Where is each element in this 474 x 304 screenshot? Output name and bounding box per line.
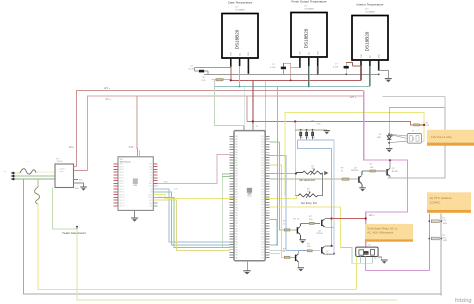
svg-text:12V +: 12V +	[350, 95, 357, 99]
svg-text:fritzing: fritzing	[455, 298, 471, 304]
svg-text:PD1: PD1	[261, 181, 264, 183]
svg-text:PD4: PD4	[261, 168, 264, 170]
ground T3	[298, 262, 300, 267]
wire SDC pink	[158, 155, 231, 184]
svg-text:GPIO4: GPIO4	[119, 175, 124, 177]
svg-text:TIP120: TIP120	[316, 233, 323, 235]
ground sensor3	[385, 79, 392, 83]
svg-text:DC-: DC-	[374, 258, 378, 260]
svg-text:IO2: IO2	[150, 175, 153, 177]
wire gray stubs to resistors	[270, 250, 285, 252]
svg-text:DS18B20: DS18B20	[304, 28, 309, 48]
wire red AVCC drop	[265, 80, 267, 136]
wire green vertical	[279, 142, 284, 230]
wire S3 VDD drop	[360, 66, 362, 80]
wire green data	[270, 141, 280, 143]
wire yellow vertical	[270, 165, 285, 257]
svg-text:DS18B20: DS18B20	[236, 9, 246, 11]
svg-text:GPIO2: GPIO2	[119, 169, 124, 171]
svg-text:PD1: PD1	[261, 223, 264, 225]
wire green bundle	[158, 197, 231, 247]
svg-text:3: 3	[314, 137, 315, 139]
svg-text:GPIO1: GPIO1	[119, 166, 124, 168]
svg-text:Mega: Mega	[247, 196, 251, 198]
svg-text:fan speed pot.: fan speed pot.	[300, 179, 316, 182]
svg-text:PD3: PD3	[261, 207, 264, 209]
svg-text:GPIO15: GPIO15	[119, 206, 125, 208]
ground LED	[386, 149, 393, 153]
transistor Q1	[359, 176, 362, 184]
node red junction	[294, 120, 296, 122]
svg-text:0.1uF: 0.1uF	[333, 66, 339, 68]
svg-text:12V +: 12V +	[369, 214, 376, 217]
wire dark red from sensor bus	[252, 80, 254, 130]
svg-text:PD4: PD4	[261, 147, 264, 149]
wire red to SSR	[332, 218, 366, 220]
wire gray fan loop	[389, 107, 445, 109]
node teal junctions	[239, 86, 241, 88]
svg-text:1k: 1k	[283, 223, 285, 225]
svg-text:IO5: IO5	[150, 180, 153, 182]
svg-text:PD0: PD0	[261, 220, 264, 222]
svg-text:PD6: PD6	[261, 173, 264, 175]
svg-text:10k: 10k	[312, 168, 315, 170]
svg-text:PD2: PD2	[261, 226, 264, 228]
wire T4 to rails	[325, 245, 332, 247]
wire blue collect	[298, 139, 334, 141]
svg-text:12V+: 12V+	[69, 146, 75, 149]
svg-text:GND: GND	[318, 50, 320, 55]
wire S2 GND drop	[317, 66, 319, 74]
svg-text:EN: EN	[150, 169, 152, 171]
capacitor C1 0.1uF	[195, 67, 231, 69]
svg-text:PD2: PD2	[261, 163, 264, 165]
wire mains L with jumper squiggle	[15, 172, 20, 174]
svg-text:PD5: PD5	[261, 170, 264, 172]
wire fan fanout	[389, 134, 407, 136]
svg-text:IO4: IO4	[150, 178, 153, 180]
svg-text:120V: 120V	[443, 240, 448, 242]
svg-text:PD6: PD6	[261, 152, 264, 154]
wire sensor ground bus	[204, 73, 379, 75]
transistor T4 TIP120	[319, 249, 321, 252]
svg-text:GPIO11: GPIO11	[119, 194, 124, 196]
svg-text:GPIO3: GPIO3	[119, 172, 124, 174]
wire mains N	[15, 175, 55, 177]
resistor R7 100	[300, 223, 302, 226]
svg-text:PD2: PD2	[261, 184, 264, 186]
wire pot1 to right	[324, 171, 328, 175]
wire 5V drop to red rail	[246, 96, 248, 122]
wire 12V+ into pin 1	[74, 166, 77, 168]
wire teal lower	[270, 220, 277, 245]
svg-text:DS18B20: DS18B20	[365, 31, 370, 51]
potentiometer set temp pot	[297, 194, 300, 196]
svg-text:PD5: PD5	[261, 255, 264, 257]
transistor Q2	[384, 171, 386, 172]
svg-text:PD5: PD5	[261, 234, 264, 236]
svg-text:Interior Temperature: Interior Temperature	[357, 2, 384, 6]
label box Solid State Relay	[365, 224, 413, 239]
svg-text:GPIO5: GPIO5	[119, 178, 124, 180]
svg-text:GND: GND	[379, 53, 381, 58]
svg-text:PD0: PD0	[261, 199, 264, 201]
svg-text:GPIO0: GPIO0	[119, 164, 124, 166]
svg-text:PD3: PD3	[261, 186, 264, 188]
svg-text:PD4: PD4	[261, 189, 264, 191]
svg-text:VIN: VIN	[150, 206, 153, 208]
svg-text:PD0: PD0	[261, 242, 264, 244]
connector J1 fan	[407, 134, 421, 144]
ground T1	[300, 235, 302, 240]
sensor U2 DS18B20 Fresh Output Temperature	[291, 13, 327, 58]
wire T2 to blue rails	[325, 218, 332, 220]
svg-text:GPIO14: GPIO14	[119, 203, 125, 205]
wire yellow IC to 340	[270, 207, 341, 247]
svg-text:CLK: CLK	[149, 192, 152, 194]
ground SSR	[381, 260, 388, 264]
wire blue vertical	[270, 155, 308, 250]
wire yellow loop	[285, 112, 424, 196]
svg-text:PD3: PD3	[261, 165, 264, 167]
wire heater case ground	[53, 188, 77, 229]
transistor T3	[296, 254, 299, 262]
U5 right pins	[265, 136, 269, 138]
svg-text:PD5: PD5	[261, 213, 264, 215]
svg-text:PD4: PD4	[261, 252, 264, 254]
wire CLR yellow long to pot	[158, 195, 298, 199]
svg-text:PD1: PD1	[261, 244, 264, 246]
wire sensor 5V bus	[231, 79, 361, 81]
svg-text:(2) PTC Heaters,: (2) PTC Heaters,	[430, 196, 453, 200]
wire 5V+ bus	[88, 96, 364, 171]
ground U2	[134, 210, 136, 217]
wire heater bottom	[440, 294, 442, 295]
svg-text:PD7: PD7	[261, 218, 264, 220]
resistor R9 100 lower	[298, 251, 300, 254]
wire 5V into pin 2	[74, 169, 88, 171]
svg-text:Heater Case Ground: Heater Case Ground	[63, 232, 87, 235]
wire heater left vertical	[428, 214, 430, 271]
wire pullup rail	[295, 129, 327, 131]
node mains input arrows	[11, 172, 15, 175]
svg-text:CS: CS	[175, 189, 179, 191]
LED D1	[388, 108, 390, 136]
IC U5 ATmega	[234, 131, 265, 261]
svg-text:10k: 10k	[307, 191, 310, 193]
svg-text:1: 1	[302, 137, 303, 139]
svg-text:PD1: PD1	[261, 202, 264, 204]
svg-text:GPIO10: GPIO10	[119, 192, 125, 194]
wire yellow bundle	[158, 200, 231, 250]
svg-text:0.1uF: 0.1uF	[189, 68, 195, 70]
svg-text:conv: conv	[60, 171, 64, 173]
svg-text:RST: RST	[149, 200, 152, 202]
svg-text:1k: 1k	[297, 219, 299, 221]
label box PTC heaters	[427, 192, 471, 210]
svg-text:MOSI: MOSI	[148, 197, 152, 199]
svg-text:WiFi Module: WiFi Module	[120, 162, 132, 164]
svg-text:PD7: PD7	[261, 197, 264, 199]
resistor R5 100	[361, 171, 363, 175]
svg-text:PD1: PD1	[261, 160, 264, 162]
svg-text:5V +: 5V +	[79, 180, 84, 182]
wire pot loop	[318, 173, 323, 196]
svg-text:5V +: 5V +	[106, 97, 112, 101]
svg-text:PD6: PD6	[261, 194, 264, 196]
power module U4 12V-5V	[55, 164, 74, 188]
wire teal	[158, 192, 231, 245]
wire S3 DQ drop	[369, 66, 371, 87]
svg-text:LED: LED	[377, 137, 381, 139]
transistor T1	[297, 226, 300, 234]
svg-text:PD3: PD3	[261, 144, 264, 146]
svg-text:PD7: PD7	[261, 176, 264, 178]
svg-text:PD7: PD7	[261, 155, 264, 157]
wire DQ drop	[239, 66, 241, 87]
wire mains E	[15, 178, 55, 180]
wire one-wire data bus (teal)	[214, 86, 370, 88]
svg-text:Case Temperature: Case Temperature	[228, 0, 253, 4]
wire to Q1 base	[270, 178, 342, 180]
transistor T2 TIP120	[319, 222, 321, 225]
wire heater right vertical	[440, 214, 442, 296]
svg-text:BC337: BC337	[392, 171, 399, 173]
svg-text:4014: 4014	[364, 253, 368, 255]
svg-text:2: 2	[308, 137, 309, 139]
svg-text:GND: GND	[75, 188, 80, 190]
U5 left pins	[230, 136, 234, 138]
resistor R3 220	[414, 124, 420, 126]
svg-text:PD6: PD6	[261, 257, 264, 259]
wire teal faint drop	[244, 87, 246, 126]
svg-text:DS18B20: DS18B20	[366, 11, 376, 13]
svg-text:PD5: PD5	[261, 191, 264, 193]
svg-text:120V: 120V	[443, 223, 448, 225]
svg-text:3.3V: 3.3V	[129, 147, 134, 149]
wire faint 5V to fan	[383, 96, 445, 98]
wire red drop pots	[295, 122, 298, 196]
wire teal under IC to bundle	[270, 244, 278, 246]
svg-text:PD6: PD6	[261, 215, 264, 217]
wire gray to bottom loop	[23, 179, 441, 294]
svg-text:PD3: PD3	[261, 249, 264, 251]
wire green to pot1	[270, 173, 296, 175]
wire teal to IC top	[214, 87, 244, 131]
svg-text:PD3: PD3	[261, 228, 264, 230]
svg-text:1k: 1k	[283, 251, 285, 253]
wire 12V+ bus	[76, 91, 363, 167]
svg-text:PD7: PD7	[261, 239, 264, 241]
wire yellow bottom long	[38, 204, 357, 289]
svg-text:PD0: PD0	[261, 157, 264, 159]
svg-text:GPIO7: GPIO7	[119, 183, 124, 185]
wire CS blue	[158, 189, 231, 242]
svg-text:Set Temp. Pot: Set Temp. Pot	[301, 202, 317, 205]
heater R10 PTC	[428, 220, 430, 222]
wire red drop to rail	[294, 122, 296, 130]
wire squiggle down	[37, 179, 39, 187]
potentiometer fan speed pot	[296, 172, 303, 174]
label box 12V Fan 4 wire	[427, 130, 474, 143]
wire yellow from SSR	[356, 257, 358, 290]
svg-text:GPIO6: GPIO6	[119, 180, 124, 182]
U2 right pins	[153, 163, 157, 165]
svg-text:PD6: PD6	[261, 236, 264, 238]
ground power module	[80, 187, 87, 191]
wire S2 VDD tap	[290, 68, 292, 81]
svg-text:12V Fan 4 wire: 12V Fan 4 wire	[431, 135, 452, 139]
wire Q2 collector to 12V	[389, 160, 391, 168]
wire magenta SSR down right	[366, 257, 430, 271]
relay U6 SSR	[356, 247, 378, 256]
wire red feed across fan area	[247, 121, 414, 125]
svg-text:120VAC: 120VAC	[430, 200, 442, 204]
svg-text:CS: CS	[150, 189, 152, 191]
svg-text:PD2: PD2	[261, 141, 264, 143]
svg-text:GPIO12: GPIO12	[119, 197, 125, 199]
svg-text:12V +: 12V +	[104, 86, 111, 90]
wire S2 DQ drop	[308, 66, 310, 87]
svg-text:PD2: PD2	[261, 205, 264, 207]
svg-text:PD5: PD5	[261, 149, 264, 151]
wire S3 GND to ground	[379, 71, 389, 79]
svg-text:PD4: PD4	[261, 231, 264, 233]
svg-text:DS18B20: DS18B20	[235, 29, 240, 49]
svg-text:PD0: PD0	[261, 178, 264, 180]
wire GND drop	[247, 73, 249, 76]
wire teal SSR loop	[341, 247, 373, 263]
svg-text:GPIO13: GPIO13	[119, 200, 125, 202]
U2 left pins	[114, 163, 118, 165]
svg-text:IO0: IO0	[150, 172, 153, 174]
wire pale green bottom	[77, 229, 397, 300]
svg-text:2N2222: 2N2222	[351, 170, 359, 172]
svg-text:PD2: PD2	[261, 247, 264, 249]
svg-text:PD4: PD4	[261, 210, 264, 212]
svg-text:GPIO9: GPIO9	[119, 189, 124, 191]
svg-text:12-5V: 12-5V	[57, 161, 63, 163]
svg-text:SDC: SDC	[164, 182, 169, 184]
wire SSR right to ground	[378, 257, 382, 260]
wire 3.3V feed	[136, 96, 139, 157]
svg-text:0.1uF: 0.1uF	[270, 67, 276, 69]
pin GND to ground	[74, 183, 84, 187]
sensor U3 DS18B20 Interior Temperature	[352, 16, 388, 61]
heater R11 PTC	[428, 238, 430, 240]
svg-text:PD0: PD0	[261, 136, 264, 138]
pin 5V+ stub	[74, 178, 79, 180]
svg-text:DS18B20: DS18B20	[305, 8, 315, 10]
svg-text:~: ~	[4, 169, 6, 173]
svg-text:GND: GND	[248, 51, 250, 56]
wire Q2 emitter	[389, 177, 391, 178]
svg-text:AC, 40A, W/heatsink: AC, 40A, W/heatsink	[367, 231, 393, 235]
wire green up to IC pins	[222, 174, 230, 248]
svg-text:GPIO8: GPIO8	[119, 186, 124, 188]
ground U5	[247, 261, 249, 271]
top pin stubs	[243, 126, 245, 131]
IC U2 WiFi module	[118, 157, 153, 211]
ground Q1	[361, 184, 363, 187]
wire magenta loop	[364, 91, 408, 248]
wire VDD drop to 5V	[230, 67, 232, 81]
sensor U1 DS18B20 Case Temperature	[222, 14, 258, 59]
svg-text:PD1: PD1	[261, 139, 264, 141]
svg-text:Fresh Output Temperature: Fresh Output Temperature	[291, 0, 326, 3]
ground pullup rail	[324, 131, 331, 135]
